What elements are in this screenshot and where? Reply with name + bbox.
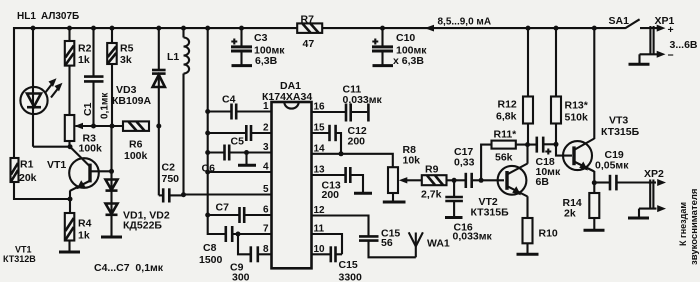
svg-text:C5: C5 bbox=[231, 136, 245, 148]
wire pin6 row left bbox=[208, 214, 239, 216]
svg-text:C6: C6 bbox=[202, 163, 216, 175]
label VD1 VD2 bbox=[123, 210, 170, 232]
label R8 value bbox=[403, 144, 421, 167]
wire decoupling bus vertical bbox=[208, 28, 226, 234]
node junction rail-L1 bbox=[181, 26, 186, 31]
IC DA1 K174XA34 body bbox=[272, 102, 312, 268]
wire R5 bottom to wiper row bbox=[111, 64, 113, 126]
label C9 value bbox=[230, 262, 250, 282]
svg-text:1500: 1500 bbox=[199, 254, 223, 266]
wire pin2 row left bbox=[208, 132, 246, 134]
node junction R9-C17-C16 bbox=[452, 178, 457, 183]
capacitor C1 bbox=[84, 77, 104, 82]
svg-text:750: 750 bbox=[162, 173, 180, 185]
svg-text:L1: L1 bbox=[167, 51, 179, 63]
svg-text:100k: 100k bbox=[79, 143, 103, 155]
varicap VD3 bbox=[152, 70, 166, 87]
svg-text:5: 5 bbox=[263, 184, 269, 195]
svg-text:звукоснимателя: звукоснимателя bbox=[689, 189, 700, 265]
wire pin7 row right of C8 bbox=[233, 233, 272, 235]
svg-text:2,7k: 2,7k bbox=[421, 189, 442, 201]
wire pin6 row right bbox=[245, 214, 272, 216]
label XP1 bbox=[655, 15, 675, 27]
wire rail to L1 bbox=[182, 28, 184, 37]
svg-text:200: 200 bbox=[322, 189, 340, 201]
label C1 rotated bbox=[82, 102, 94, 116]
svg-text:6: 6 bbox=[263, 205, 269, 216]
capacitor C6 bbox=[225, 145, 230, 161]
capacitor C2 750 bbox=[163, 188, 169, 202]
label C7 bbox=[216, 202, 230, 214]
svg-text:КВ109А: КВ109А bbox=[112, 95, 152, 107]
transistor VT1 bbox=[69, 147, 99, 191]
svg-text:6,8k: 6,8k bbox=[496, 111, 517, 123]
label C5 bbox=[231, 136, 245, 148]
label VT1 type bottom bbox=[3, 245, 36, 265]
label C10 value bbox=[393, 32, 427, 67]
capacitor C10 100uF electrolytic bbox=[372, 26, 393, 66]
resistor R4 1k bbox=[65, 213, 75, 241]
label R7 value bbox=[301, 14, 315, 51]
svg-text:2k: 2k bbox=[564, 208, 576, 220]
wire rail to C1 bbox=[92, 28, 94, 76]
wire rail to R5 bbox=[111, 28, 113, 43]
svg-text:C3: C3 bbox=[254, 32, 268, 44]
label C13 value bbox=[322, 180, 341, 202]
svg-text:2: 2 bbox=[263, 123, 269, 134]
svg-text:+: + bbox=[668, 24, 674, 36]
diode VD2 bbox=[106, 204, 118, 215]
svg-text:200: 200 bbox=[348, 136, 366, 148]
pin number 12 bbox=[314, 205, 326, 216]
capacitor C12 200 on pin15 bbox=[312, 125, 344, 157]
label AL307B bbox=[41, 11, 79, 22]
svg-text:0,033мк: 0,033мк bbox=[453, 231, 493, 243]
label HL1 bbox=[17, 11, 36, 22]
label C12 value bbox=[348, 125, 367, 148]
resistor R13 510k bbox=[551, 26, 561, 145]
svg-text:1k: 1k bbox=[78, 54, 90, 66]
svg-text:R2: R2 bbox=[78, 43, 92, 55]
node junction rail-bus bbox=[205, 26, 210, 31]
wire R3 wiper row to R6 bbox=[76, 125, 124, 127]
wire pin4 row bbox=[208, 171, 272, 173]
capacitor C13 200 on pin13 bbox=[312, 167, 373, 193]
wire pin1 row right bbox=[237, 110, 272, 112]
pin number 16 bbox=[314, 102, 326, 113]
label SA1 bbox=[609, 15, 630, 27]
label C17 value bbox=[454, 146, 475, 169]
svg-text:VT3: VT3 bbox=[609, 115, 628, 127]
wire C9 to pin8 bbox=[259, 253, 272, 255]
label R4 value bbox=[78, 218, 92, 242]
wire pin2 row right bbox=[252, 132, 272, 134]
wire VT3 collector to rail bbox=[592, 26, 597, 139]
wire pin3 node to ground bbox=[245, 153, 247, 166]
wire top supply rail right section bbox=[322, 27, 626, 29]
wire pin1 row left bbox=[208, 110, 231, 112]
node junction bus-pin1 row bbox=[205, 109, 210, 114]
svg-text:6,3В: 6,3В bbox=[255, 55, 278, 67]
svg-text:10: 10 bbox=[314, 244, 326, 255]
label C15a value 3300 bbox=[339, 259, 363, 282]
label minus terminal bbox=[668, 50, 674, 62]
pin number 11 bbox=[314, 224, 325, 235]
svg-text:КД522Б: КД522Б bbox=[123, 220, 162, 232]
svg-text:10k: 10k bbox=[403, 155, 421, 167]
svg-text:3k: 3k bbox=[120, 54, 132, 66]
potentiometer R3 100k bbox=[65, 115, 75, 141]
svg-text:3: 3 bbox=[263, 142, 269, 153]
label to pickup jacks line2 rotated bbox=[689, 189, 700, 265]
label R12 value bbox=[496, 99, 517, 123]
potentiometer R8 10k bbox=[383, 167, 422, 202]
wire R13 node down to VT3 base bbox=[556, 144, 572, 155]
label R5 value bbox=[120, 43, 134, 67]
wire rail to R2 bbox=[68, 28, 70, 41]
svg-text:АЛ307Б: АЛ307Б bbox=[41, 11, 79, 22]
diode VD1 bbox=[106, 180, 118, 191]
label VT3 type bbox=[601, 115, 640, 139]
capacitor C14 3300 on pin10 bbox=[312, 246, 343, 262]
svg-text:510k: 510k bbox=[565, 112, 589, 124]
pin number 13 bbox=[314, 165, 326, 176]
svg-text:C4: C4 bbox=[222, 94, 236, 106]
label C18 value bbox=[536, 156, 561, 188]
node junction rail-R2 bbox=[67, 26, 72, 31]
resistor R6 100k bbox=[123, 121, 149, 130]
svg-text:R11*: R11* bbox=[494, 129, 518, 141]
wire pin14 row to R8 bbox=[312, 154, 393, 167]
connector XP1 plug bbox=[629, 25, 666, 65]
wire pin11 down bbox=[312, 234, 343, 254]
label C3 value bbox=[254, 32, 285, 67]
node junction C18-R13-VT3 base bbox=[554, 142, 559, 147]
svg-text:56: 56 bbox=[381, 237, 393, 249]
svg-text:8: 8 bbox=[263, 244, 269, 255]
svg-text:C8: C8 bbox=[203, 242, 217, 254]
inductor L1 bbox=[184, 38, 190, 74]
node junction wiper-R5-diodes bbox=[110, 124, 115, 129]
node junction collector-R3-LED bbox=[68, 144, 73, 149]
label C2 value bbox=[162, 162, 180, 186]
label C11 value bbox=[343, 84, 383, 107]
label R6 value bbox=[124, 139, 148, 163]
svg-text:7: 7 bbox=[263, 224, 269, 235]
wire C2 to L1 column bbox=[170, 194, 183, 196]
wire LED column top bbox=[32, 28, 34, 147]
node junction R6-VD3 column bbox=[156, 124, 161, 129]
node junction bus-pin6 row bbox=[205, 213, 210, 218]
svg-text:20k: 20k bbox=[19, 172, 37, 184]
label DA1 type bbox=[262, 80, 312, 103]
svg-text:15: 15 bbox=[314, 123, 326, 134]
svg-text:C2: C2 bbox=[162, 162, 176, 174]
wire L1 bottom to C2 node bbox=[182, 74, 184, 196]
svg-text:14: 14 bbox=[314, 143, 326, 154]
svg-text:C10: C10 bbox=[396, 32, 415, 44]
svg-text:КТ315Б: КТ315Б bbox=[471, 207, 510, 219]
svg-text:0,33: 0,33 bbox=[454, 157, 475, 169]
pin number 3 bbox=[263, 142, 269, 153]
resistor R10 bbox=[517, 218, 539, 254]
label L1 bbox=[167, 51, 179, 63]
label C6 bbox=[202, 163, 216, 175]
node junction rail-C1 bbox=[91, 26, 96, 31]
svg-text:R4: R4 bbox=[78, 218, 92, 230]
resistor R11 56k feedback bbox=[481, 141, 536, 181]
svg-text:VT1: VT1 bbox=[15, 245, 32, 255]
pin number 4 bbox=[263, 162, 269, 173]
node junction L1-C2-pin5 bbox=[181, 192, 186, 197]
capacitor C19 0.05uF bbox=[594, 175, 649, 191]
wire VD3 to R6 node and C2 bbox=[158, 75, 160, 196]
svg-text:0,1мк: 0,1мк bbox=[100, 92, 111, 119]
LED HL1 bbox=[20, 78, 62, 114]
label battery voltage 3-6V bbox=[670, 39, 698, 51]
label VT1 near symbol bbox=[47, 159, 66, 171]
label R3 value bbox=[79, 133, 103, 155]
label C4-C7 common value bbox=[94, 262, 164, 274]
ground bar below VD2 bbox=[101, 236, 122, 239]
wiper arrowhead of R3 bbox=[75, 123, 84, 129]
node junction bus-pin2 row bbox=[205, 131, 210, 136]
pin number 14 bbox=[314, 143, 326, 154]
node junction rail-R5 bbox=[110, 26, 115, 31]
label to pickup jacks line1 rotated bbox=[678, 202, 688, 246]
pin number 2 bbox=[263, 123, 269, 134]
svg-text:XP2: XP2 bbox=[644, 168, 664, 180]
svg-text:0,033мк: 0,033мк bbox=[343, 94, 383, 106]
node junction rail-VD3 bbox=[156, 26, 161, 31]
wire diode column top bbox=[110, 126, 112, 237]
wire pin3 row left bbox=[208, 151, 224, 153]
resistor R2 1k bbox=[65, 41, 75, 66]
pin number 7 bbox=[263, 224, 269, 235]
node junction emitter VT3-R14-C19 bbox=[592, 180, 597, 185]
node junction emitter-R1-R4 bbox=[68, 197, 73, 202]
wire R2 to R3 bbox=[68, 66, 70, 115]
pin number 8 bbox=[263, 244, 269, 255]
wire R4 bottom to ground bbox=[68, 241, 70, 253]
switch SA1 bbox=[625, 19, 657, 28]
capacitor C9 300 bbox=[251, 246, 258, 262]
svg-text:R6: R6 bbox=[129, 139, 143, 151]
node junction bus-pin4 row bbox=[205, 170, 210, 175]
node junction bus-pin3 row bbox=[205, 150, 210, 155]
label WA1 bbox=[427, 238, 450, 250]
label C19 value bbox=[595, 149, 629, 172]
wire C2 row left stub bbox=[159, 194, 163, 196]
antenna WA1 bbox=[409, 232, 423, 257]
pin number 6 bbox=[263, 205, 269, 216]
svg-text:13: 13 bbox=[314, 165, 326, 176]
svg-text:КТ312В: КТ312В bbox=[3, 254, 36, 264]
capacitor C16 0.033uF to ground bbox=[445, 180, 463, 217]
transistor VT2 bbox=[498, 145, 528, 218]
svg-text:К гнездам: К гнездам bbox=[678, 202, 688, 246]
svg-text:6В: 6В bbox=[536, 176, 550, 188]
label VD3 bbox=[112, 84, 152, 107]
label C1 value rotated bbox=[100, 92, 111, 119]
pin number 5 bbox=[263, 184, 269, 195]
svg-text:HL1: HL1 bbox=[17, 11, 36, 22]
svg-text:47: 47 bbox=[303, 38, 315, 50]
resistor R1 20k bbox=[11, 158, 19, 182]
wire LED column bottom to R3 node bbox=[33, 146, 70, 148]
label C8 value bbox=[199, 242, 223, 266]
label VT2 type bbox=[471, 196, 510, 219]
pin number 10 bbox=[314, 244, 326, 255]
wire emitter node to R4 bbox=[69, 191, 71, 214]
svg-text:х 6,3В: х 6,3В bbox=[393, 55, 424, 67]
wire rail to VD3 bbox=[158, 28, 160, 70]
svg-text:4: 4 bbox=[263, 162, 269, 173]
node junction collector VT2 bbox=[525, 142, 530, 147]
node junction wiper-C1 bbox=[91, 124, 96, 129]
wire R1 bottom to emitter node bbox=[14, 182, 70, 199]
node junction rail-LED bbox=[31, 26, 36, 31]
label C15 value 56 bbox=[381, 228, 400, 250]
svg-text:C7: C7 bbox=[216, 202, 230, 214]
label C4 bbox=[222, 94, 236, 106]
capacitor C17 0.33 bbox=[454, 173, 481, 188]
svg-text:С4...С7 0,1мк: С4...С7 0,1мк bbox=[94, 262, 164, 274]
label current 8.5-9.0 mA bbox=[438, 17, 492, 28]
label C16 value bbox=[453, 222, 493, 243]
svg-text:R5: R5 bbox=[120, 43, 134, 55]
wire VT3 emitter down bbox=[593, 171, 595, 183]
resistor R7 47 bbox=[297, 23, 322, 33]
svg-text:R1: R1 bbox=[20, 159, 34, 171]
resistor R5 3k bbox=[107, 43, 117, 64]
wire pin7 node down to C9 row bbox=[238, 234, 250, 254]
node junction pin3-ground cap C6 bbox=[244, 150, 249, 155]
svg-text:16: 16 bbox=[314, 102, 326, 113]
svg-text:C1: C1 bbox=[82, 102, 94, 116]
svg-text:К174ХА34: К174ХА34 bbox=[262, 91, 312, 103]
wire VT1 base to diode column bbox=[90, 170, 112, 172]
ground bar below R4 bbox=[59, 251, 80, 254]
capacitor C8 1500 bbox=[226, 226, 232, 242]
svg-text:1k: 1k bbox=[78, 230, 90, 242]
label R13 value bbox=[565, 100, 589, 124]
resistor R12 6.8k bbox=[523, 26, 533, 145]
node junction pin7-C9 bbox=[236, 232, 241, 237]
current direction arrow 8.5-9.0 mA bbox=[425, 25, 435, 32]
svg-text:0,05мк: 0,05мк bbox=[595, 160, 629, 172]
pin number 15 bbox=[314, 123, 326, 134]
capacitor C15 56 to antenna bbox=[312, 216, 416, 258]
svg-text:11: 11 bbox=[314, 224, 325, 235]
svg-text:12: 12 bbox=[314, 205, 326, 216]
capacitor C18 10uF electrolytic bbox=[537, 137, 556, 155]
svg-text:56k: 56k bbox=[495, 152, 513, 164]
svg-text:3300: 3300 bbox=[339, 272, 363, 282]
resistor R9 2.7k bbox=[422, 175, 454, 185]
node junction base-diodes bbox=[109, 169, 114, 174]
svg-text:100k: 100k bbox=[124, 150, 148, 162]
resistor R14 2k bbox=[584, 183, 605, 231]
svg-text:R10: R10 bbox=[539, 228, 558, 240]
label R1 value bbox=[19, 159, 37, 185]
svg-text:R9: R9 bbox=[425, 164, 439, 176]
svg-text:WA1: WA1 bbox=[427, 238, 450, 250]
capacitor C11 0.033uF with end bar bbox=[312, 104, 369, 122]
svg-text:8,5...9,0 мА: 8,5...9,0 мА bbox=[438, 17, 492, 28]
svg-text:SA1: SA1 bbox=[609, 15, 630, 27]
capacitor C7 bbox=[240, 207, 245, 223]
label R2 value bbox=[78, 43, 92, 67]
wire R3 bottom to collector node bbox=[68, 141, 70, 147]
capacitor C4 bbox=[232, 104, 237, 120]
wire left edge column to R1 bbox=[13, 27, 15, 158]
label plus terminal bbox=[668, 24, 674, 36]
transistor VT3 bbox=[563, 139, 594, 172]
svg-text:R7: R7 bbox=[301, 14, 315, 26]
wire pin3 row right bbox=[230, 151, 272, 153]
wire to VT2 base bbox=[481, 179, 504, 181]
svg-text:C15: C15 bbox=[339, 259, 358, 271]
wire pin5 row bbox=[184, 193, 272, 195]
svg-text:300: 300 bbox=[232, 272, 250, 282]
connector XP2 plug bbox=[628, 179, 666, 218]
wire top supply rail left section bbox=[14, 27, 297, 29]
capacitor C5 bbox=[246, 125, 251, 141]
svg-text:R13*: R13* bbox=[565, 100, 589, 112]
label R10 bbox=[539, 228, 558, 240]
svg-text:КТ315Б: КТ315Б bbox=[601, 126, 640, 138]
label R11 value bbox=[494, 129, 518, 164]
node junction base VT2-R11 bbox=[479, 178, 484, 183]
svg-text:VT1: VT1 bbox=[47, 159, 66, 171]
pin number 1 bbox=[263, 101, 269, 112]
wire C1 to wiper row bbox=[92, 82, 94, 126]
label R9 value bbox=[421, 164, 442, 201]
label XP2 bbox=[644, 168, 664, 180]
svg-text:−: − bbox=[668, 50, 674, 62]
label R14 value bbox=[563, 197, 582, 220]
svg-text:R12: R12 bbox=[498, 99, 517, 111]
svg-text:3...6В: 3...6В bbox=[670, 39, 698, 51]
capacitor C3 100uF electrolytic bbox=[231, 26, 252, 66]
ground bar at pin3 node bbox=[238, 164, 256, 167]
